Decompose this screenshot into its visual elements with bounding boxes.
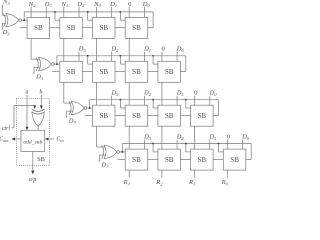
wire SB11 o/p to gate G2 top input [30,38,32,59]
junction ctrl rail to SB14 [119,11,121,13]
SB cell SB31 [93,105,116,126]
wire ctrl rail drop into SB32 left [119,100,121,108]
SB cell SB32 [125,105,148,126]
svg-text:R0: R0 [221,179,229,186]
SB cell SB21 [60,61,83,82]
SB cell SB41 [125,149,148,170]
wire N2 into SB11 a-input [30,7,32,18]
svg-text:SB: SB [99,112,108,120]
wire carry SB14 Cout to SB13 Cin [115,27,125,29]
svg-text:N3: N3 [2,0,10,6]
svg-text:N2: N2 [28,1,36,8]
wire SB14 o/p down to SB23 a-input [128,38,130,61]
wire SB22 o/p down to SB31 a-input [96,82,98,105]
svg-text:Cin: Cin [56,137,63,143]
wire ctrl rail drop into SB13 left [87,12,89,20]
wire row 2 ctrl to SB24 carry-in (right loop) [185,56,187,72]
legend dashed enclosure (SB cell detail) [17,99,50,166]
wire SB23 o/p down to SB32 a-input [128,82,130,105]
wire Cout out of add_sub (with arrow) [14,138,21,140]
wire SB42 o/p to remainder R2 [161,170,163,178]
svg-text:Cout: Cout [0,137,9,143]
wire SB21 Cout stub [52,71,60,73]
svg-text:0: 0 [227,134,230,141]
svg-text:SB: SB [132,68,141,76]
svg-text:add_sub: add_sub [23,139,42,145]
junction ctrl rail to SB34 [185,99,187,101]
wire D2 into SB42 b-input [176,140,178,150]
wire ctrl into legend XOR left input (with arrow) [12,127,14,129]
svg-text:SB: SB [99,68,108,76]
svg-text:D3: D3 [44,1,53,8]
wire gate G2 output to SB21 ctrl and row 2 ctrl rail [54,63,60,65]
XNOR gate G1 (inputs N3, D3) driving row 1 ctrl line [4,14,22,27]
wire ctrl rail drop into SB22 left [87,56,89,64]
svg-text:D3: D3 [2,29,11,36]
wire carry SB23 Cout to SB22 Cin [115,71,125,73]
svg-text:SB: SB [165,68,174,76]
wire D2 into SB32 b-input [143,96,145,106]
svg-text:SB: SB [132,112,141,120]
wire SB32 o/p down to SB41 a-input [128,126,130,149]
wire D1 into SB13 b-input [111,7,113,18]
SB cell SB42 [158,149,181,170]
add_sub block U1 [21,130,45,151]
wire row 3 ctrl to SB34 carry-in (right loop) [218,100,220,116]
wire gate G3 output to SB31 ctrl and row 3 ctrl rail [87,107,93,109]
wire carry SB44 Cout to SB43 Cin [213,158,223,160]
row 2 ctrl rail [57,55,186,57]
wire ctrl rail drop into SB14 left [119,12,121,20]
wire carry SB24 Cout to SB23 Cin [148,71,158,73]
junction row 3 gate output [89,107,91,109]
wire D0 into SB44 b-input [242,140,244,150]
svg-text:SB: SB [132,156,141,164]
svg-text:R1: R1 [188,179,195,186]
wire 0 into SB34 a-input [194,96,196,106]
legend XOR gate (b XOR ctrl) [32,109,45,126]
svg-text:ctrl: ctrl [2,126,10,132]
wire SB11 Cout stub [20,27,28,29]
wire ctrl rail drop into SB34 left [185,100,187,108]
junction row 1 gate output [23,19,25,21]
wire D0 into SB14 b-input [143,7,145,18]
SB cell SB22 [93,61,116,82]
wire carry SB13 Cout to SB12 Cin [82,27,92,29]
junction ctrl rail to SB23 [119,55,121,57]
SB cell SB43 [191,149,214,170]
svg-text:SB: SB [165,112,174,120]
svg-text:b: b [40,90,43,96]
junction row 4 gate output [121,151,123,153]
wire D3 to gate G2 bottom input [33,67,35,74]
wire row 4 ctrl to SB44 carry-in (right loop) [250,144,252,160]
wire SB12 o/p down to SB21 a-input [63,38,65,61]
wire 0 into SB24 a-input [161,52,163,62]
wire SB41 Cout stub [118,158,126,160]
SB cell SB13 [93,17,116,38]
svg-text:D0: D0 [142,1,151,8]
wire D2 into SB12 b-input [78,7,80,18]
wire SB21 o/p to gate G3 top input [63,82,65,103]
XNOR gate G3 (sign XNOR D3) driving row 3 ctrl line [69,101,87,114]
svg-text:o/p: o/p [29,177,37,183]
junction ctrl rail to SB13 [87,11,89,13]
wire SB24 o/p down to SB33 a-input [161,82,163,105]
svg-text:SB: SB [67,24,76,32]
wire Cin into add_sub (with arrow) [46,138,54,140]
wire row 1 ctrl to SB14 carry-in (right loop) [152,12,154,28]
svg-text:N0: N0 [93,1,101,8]
junction ctrl rail to SB32 [119,99,121,101]
XNOR gate G2 (sign XNOR D3) driving row 2 ctrl line [36,57,54,70]
SB cell SB14 [125,17,148,38]
svg-text:0: 0 [128,1,131,8]
wire D3 into SB31 b-input [111,96,113,106]
junction ctrl rail to SB24 [152,55,154,57]
wire N0 into SB13 a-input [96,7,98,18]
row 1 ctrl rail [24,11,153,13]
wire D2 into SB22 b-input [111,52,113,62]
wire ctrl rail drop into SB24 left [152,56,154,64]
svg-text:N1: N1 [60,1,68,8]
wire o/p out of add_sub (with arrow) [32,152,34,171]
wire SB41 o/p to remainder R3 [128,170,130,178]
wire D3 into SB11 b-input [45,7,47,18]
svg-text:R2: R2 [155,179,163,186]
svg-text:SB: SB [230,156,239,164]
wire carry SB33 Cout to SB32 Cin [148,115,158,117]
wire N1 into SB12 a-input [63,7,65,18]
svg-text:SB: SB [197,156,206,164]
wire D1 into SB43 b-input [209,140,211,150]
junction ctrl rail to SB42 [152,143,154,145]
svg-text:0: 0 [194,90,197,97]
wire ctrl rail drop into SB42 left [152,144,154,152]
SB cell SB11 [27,17,49,38]
svg-text:SB: SB [132,24,141,32]
wire carry SB43 Cout to SB42 Cin [180,158,190,160]
wire 0 into SB14 a-input [128,7,130,18]
wire D0 into SB34 b-input [209,96,211,106]
wire b into legend XOR right input (with arrow) [40,95,42,105]
svg-text:D3: D3 [101,162,110,169]
svg-text:SB: SB [197,112,206,120]
wire carry SB34 Cout to SB33 Cin [180,115,190,117]
svg-text:D3: D3 [35,74,44,81]
wire gate G1 output to SB11 ctrl and row 1 ctrl rail [22,19,28,21]
wire ctrl rail drop into SB23 left [119,56,121,64]
wire 0 into SB44 a-input [226,140,228,150]
svg-text:a: a [26,90,29,96]
wire a into add_sub (with arrow) [26,95,28,130]
wire SB34 o/p down to SB43 a-input [194,126,196,149]
junction ctrl rail to SB22 [87,55,89,57]
wire carry SB12 Cout to SB11 Cin [50,27,60,29]
svg-text:SB: SB [67,68,76,76]
wire ctrl rail drop into SB44 left [218,144,220,152]
wire D0 into SB24 b-input [176,52,178,62]
SB cell SB34 [191,105,214,126]
wire SB13 o/p down to SB22 a-input [96,38,98,61]
svg-text:D3: D3 [68,118,77,125]
junction ctrl rail to SB44 [218,143,220,145]
wire SB33 o/p down to SB42 a-input [161,126,163,149]
wire SB31 Cout stub [85,115,93,117]
wire D3 to gate G1 bottom input [2,23,4,29]
wire D1 into SB33 b-input [176,96,178,106]
wire D3 to gate G3 bottom input [66,111,68,118]
wire carry SB22 Cout to SB21 Cin [82,71,92,73]
svg-text:SB: SB [165,156,174,164]
svg-text:SB: SB [37,156,45,163]
wire D3 into SB21 b-input [78,52,80,62]
wire SB43 o/p to remainder R1 [194,170,196,178]
XNOR gate G4 (sign XNOR D3) driving row 4 ctrl line [102,145,120,158]
SB cell SB12 [60,17,83,38]
SB cell SB23 [125,61,148,82]
row 4 ctrl rail [122,143,251,145]
wire gate G4 output to SB41 ctrl and row 4 ctrl rail [120,151,126,153]
SB cell SB33 [158,105,181,126]
wire ctrl rail drop into SB33 left [152,100,154,108]
wire carry SB32 Cout to SB31 Cin [115,115,125,117]
junction ctrl rail to SB43 [185,143,187,145]
wire SB31 o/p to gate G4 top input [96,126,98,147]
wire N3 to gate G1 top input [2,5,4,16]
junction ctrl rail to SB33 [152,99,154,101]
wire SB44 o/p to remainder R0 [226,170,228,178]
SB cell SB24 [158,61,181,82]
svg-text:D1: D1 [109,1,117,8]
SB cell SB44 [223,149,246,170]
wire D1 into SB23 b-input [143,52,145,62]
wire D3 into SB41 b-input [143,140,145,150]
junction row 2 gate output [56,63,58,65]
svg-text:0: 0 [161,46,164,53]
wire ctrl rail drop into SB43 left [185,144,187,152]
row 3 ctrl rail [90,99,219,101]
wire D3 to gate G4 bottom input [98,155,100,162]
wire legend XOR output to add_sub [37,126,39,130]
junction ctrl rail to SB12 [54,11,56,13]
svg-text:SB: SB [99,24,108,32]
svg-text:D2: D2 [76,1,85,8]
svg-text:R3: R3 [123,179,131,186]
svg-text:SB: SB [34,24,43,32]
wire ctrl rail drop into SB12 left [54,12,56,20]
wire carry SB42 Cout to SB41 Cin [148,158,158,160]
